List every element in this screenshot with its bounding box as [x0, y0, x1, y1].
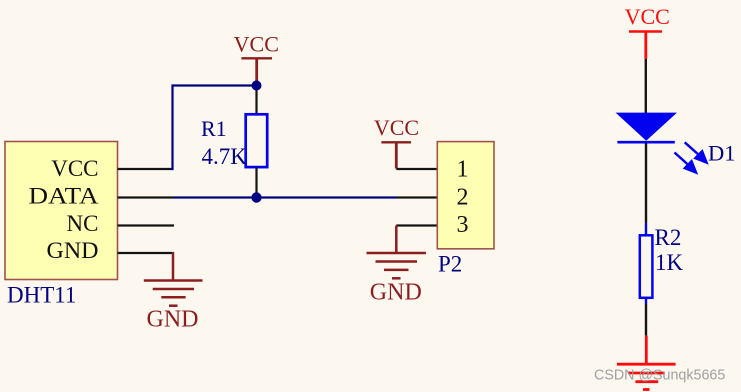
- svg-text:1K: 1K: [655, 250, 684, 275]
- svg-text:R2: R2: [655, 225, 682, 250]
- svg-text:1: 1: [457, 157, 469, 183]
- svg-text:DATA: DATA: [29, 184, 99, 209]
- svg-text:VCC: VCC: [51, 156, 98, 181]
- svg-text:3: 3: [457, 212, 469, 238]
- svg-text:R1: R1: [201, 116, 227, 141]
- svg-text:CSDN @Sunqk5665: CSDN @Sunqk5665: [594, 368, 725, 384]
- svg-text:GND: GND: [47, 238, 99, 263]
- svg-text:P2: P2: [438, 252, 462, 277]
- svg-text:4.7K: 4.7K: [202, 144, 248, 169]
- svg-text:D1: D1: [708, 141, 736, 166]
- svg-text:VCC: VCC: [234, 32, 279, 57]
- svg-text:VCC: VCC: [625, 4, 670, 29]
- svg-text:GND: GND: [147, 307, 199, 333]
- svg-text:2: 2: [457, 184, 469, 210]
- svg-text:GND: GND: [370, 280, 422, 306]
- svg-text:NC: NC: [67, 211, 99, 236]
- svg-text:VCC: VCC: [374, 115, 419, 140]
- svg-text:DHT11: DHT11: [7, 283, 76, 308]
